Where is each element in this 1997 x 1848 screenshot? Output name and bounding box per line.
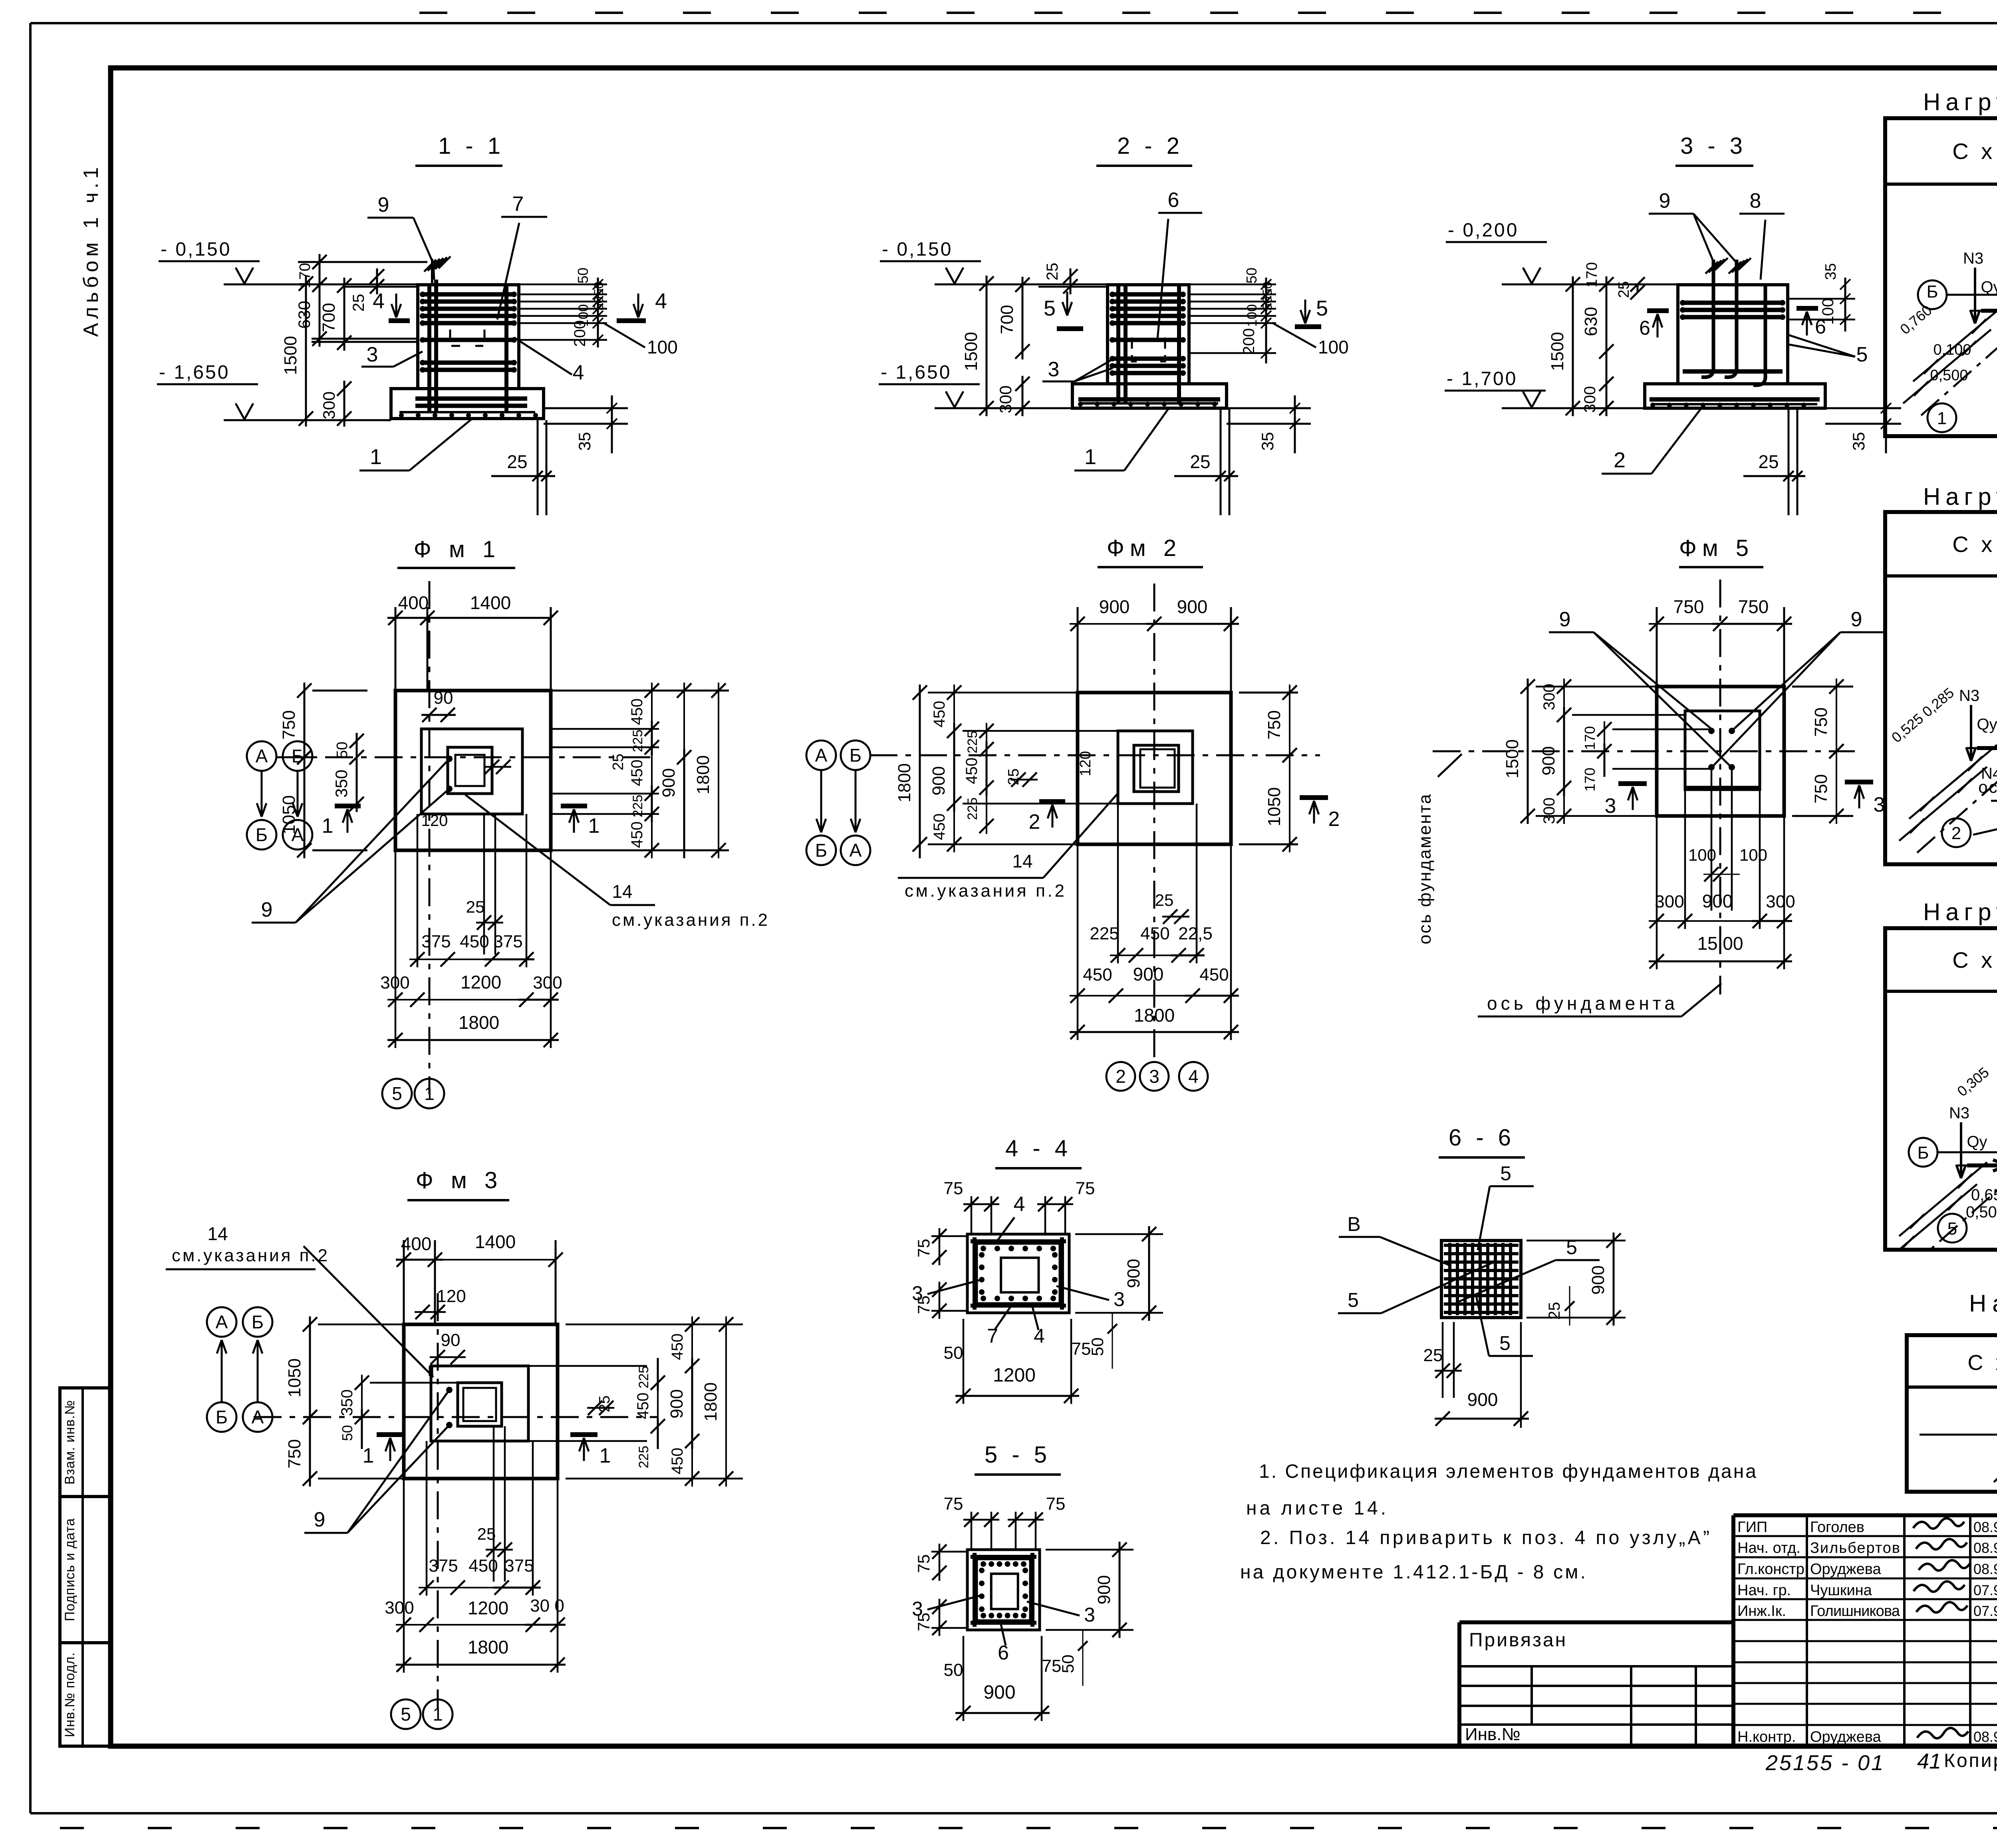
svg-text:200: 200: [1240, 328, 1258, 355]
svg-text:300: 300: [385, 1598, 414, 1618]
svg-text:Зильбертов: Зильбертов: [1810, 1540, 1900, 1556]
svg-text:2: 2: [1116, 1066, 1126, 1087]
svg-text:25: 25: [1616, 281, 1632, 298]
svg-text:1: 1: [588, 814, 600, 838]
svg-text:5: 5: [1566, 1236, 1577, 1258]
svg-text:200: 200: [571, 320, 589, 347]
svg-text:1: 1: [433, 1704, 443, 1725]
svg-text:Инв.№: Инв.№: [1465, 1725, 1521, 1744]
svg-text:120: 120: [437, 1286, 466, 1306]
svg-text:ось фундамента: ось фундамента: [1487, 993, 1675, 1014]
svg-text:Б: Б: [252, 1312, 264, 1332]
svg-text:100: 100: [1819, 298, 1837, 325]
svg-text:225: 225: [965, 731, 980, 754]
svg-text:450: 450: [931, 701, 948, 728]
svg-text:4: 4: [373, 289, 385, 313]
svg-text:Привязан: Привязан: [1469, 1630, 1567, 1651]
svg-text:375: 375: [421, 932, 451, 951]
svg-text:1800: 1800: [468, 1637, 508, 1657]
svg-text:- 0,150: - 0,150: [161, 239, 231, 260]
svg-text:120: 120: [421, 812, 448, 830]
svg-text:N3: N3: [1959, 687, 1979, 705]
svg-text:35: 35: [1849, 432, 1868, 451]
svg-text:50: 50: [1243, 268, 1260, 284]
svg-text:5: 5: [1500, 1162, 1511, 1185]
svg-text:300: 300: [320, 391, 338, 419]
svg-text:4: 4: [1188, 1066, 1199, 1087]
svg-text:4: 4: [1014, 1193, 1025, 1216]
svg-text:Фм 2: Фм 2: [1107, 535, 1182, 561]
svg-text:4: 4: [1034, 1325, 1045, 1347]
svg-text:225: 225: [965, 798, 980, 820]
svg-text:300: 300: [996, 385, 1015, 413]
svg-text:1500: 1500: [281, 336, 300, 375]
svg-text:14: 14: [1012, 851, 1032, 871]
svg-text:Б: Б: [292, 746, 304, 766]
svg-text:630: 630: [295, 301, 314, 329]
svg-text:А: А: [292, 824, 304, 845]
svg-text:75: 75: [944, 1494, 963, 1514]
svg-text:170: 170: [1584, 262, 1600, 287]
svg-text:300: 300: [533, 973, 562, 992]
svg-text:75: 75: [914, 1239, 933, 1258]
svg-text:Qу: Qу: [1967, 1133, 1987, 1151]
svg-text:- 0,150: - 0,150: [882, 239, 953, 260]
svg-text:Б: Б: [216, 1407, 228, 1427]
svg-text:Альбом 1 ч.1: Альбом 1 ч.1: [79, 163, 103, 337]
svg-text:С х е м а: С х е м а: [1952, 139, 1997, 164]
svg-text:50: 50: [1260, 282, 1274, 296]
svg-text:Б: Б: [850, 745, 862, 766]
svg-text:225: 225: [630, 730, 645, 752]
svg-text:Ф м 1: Ф м 1: [414, 536, 501, 562]
svg-text:225: 225: [636, 1446, 651, 1469]
svg-text:С х е м а: С х е м а: [1952, 532, 1997, 557]
svg-text:9: 9: [378, 193, 389, 216]
svg-text:2: 2: [1614, 448, 1626, 472]
svg-text:25: 25: [1546, 1302, 1563, 1320]
svg-text:50: 50: [592, 282, 606, 296]
svg-text:900: 900: [1099, 596, 1130, 617]
svg-text:Н.контр.: Н.контр.: [1737, 1729, 1796, 1745]
svg-text:41: 41: [1917, 1749, 1941, 1773]
svg-text:3: 3: [912, 1282, 923, 1304]
svg-text:6: 6: [1639, 317, 1650, 339]
svg-text:750: 750: [285, 1439, 304, 1468]
svg-text:225: 225: [636, 1366, 651, 1389]
svg-text:75: 75: [1046, 1494, 1066, 1514]
svg-text:750: 750: [1738, 596, 1769, 617]
svg-text:75: 75: [1072, 1339, 1091, 1359]
svg-text:3: 3: [1149, 1066, 1159, 1087]
svg-text:08.91: 08.91: [1973, 1729, 1997, 1745]
svg-text:07.91: 07.91: [1973, 1603, 1997, 1619]
svg-text:- 0,200: - 0,200: [1448, 220, 1519, 241]
svg-text:Нач. гр.: Нач. гр.: [1737, 1582, 1791, 1599]
svg-text:3: 3: [1874, 793, 1885, 816]
svg-text:08.91: 08.91: [1973, 1540, 1997, 1556]
svg-text:15 00: 15 00: [1697, 933, 1743, 954]
svg-text:25155 - 01: 25155 - 01: [1765, 1751, 1885, 1775]
svg-text:900: 900: [1133, 964, 1164, 985]
svg-text:5: 5: [1947, 1219, 1957, 1239]
svg-text:07.91: 07.91: [1973, 1582, 1997, 1598]
svg-text:22,5: 22,5: [1178, 924, 1213, 943]
svg-text:5: 5: [1856, 343, 1868, 366]
svg-text:450: 450: [468, 1556, 498, 1576]
svg-text:5: 5: [1316, 296, 1328, 320]
svg-text:1: 1: [363, 1444, 374, 1467]
svg-text:7: 7: [512, 193, 524, 216]
svg-text:300: 300: [1540, 798, 1558, 824]
svg-text:3: 3: [1605, 794, 1616, 818]
svg-text:5 - 5: 5 - 5: [985, 1442, 1051, 1468]
svg-text:25: 25: [1155, 891, 1174, 909]
svg-text:35: 35: [1258, 432, 1277, 451]
svg-text:5: 5: [1499, 1332, 1511, 1354]
svg-text:900: 900: [929, 766, 949, 795]
svg-text:14: 14: [612, 881, 632, 902]
svg-text:3: 3: [367, 343, 378, 366]
svg-text:900: 900: [1539, 746, 1558, 775]
svg-text:6: 6: [998, 1642, 1009, 1664]
svg-text:Взам. инв.№: Взам. инв.№: [62, 1400, 77, 1485]
svg-text:2: 2: [1951, 824, 1961, 843]
svg-text:на документе 1.412.1-БД - 8 см: на документе 1.412.1-БД - 8 см.: [1240, 1562, 1586, 1583]
svg-text:1: 1: [1937, 409, 1947, 428]
svg-text:50: 50: [1260, 296, 1274, 311]
svg-text:- 1,700: - 1,700: [1447, 368, 1517, 389]
svg-text:75: 75: [914, 1554, 933, 1573]
svg-text:25: 25: [1005, 768, 1022, 785]
svg-text:1 - 1: 1 - 1: [438, 133, 504, 159]
svg-text:3: 3: [912, 1598, 923, 1620]
svg-text:75: 75: [1076, 1179, 1095, 1198]
svg-text:3 - 3: 3 - 3: [1680, 133, 1747, 159]
svg-text:1800: 1800: [701, 1382, 721, 1421]
svg-text:Фм 5: Фм 5: [1679, 535, 1754, 561]
svg-text:6 - 6: 6 - 6: [1449, 1125, 1515, 1151]
svg-text:Инж.Iк.: Инж.Iк.: [1737, 1603, 1786, 1620]
svg-text:0,655: 0,655: [1971, 1186, 1997, 1204]
svg-text:08.91: 08.91: [1973, 1519, 1997, 1535]
svg-text:Нагрузки на фундамент Фм5: Нагрузки на фундамент Фм5: [1969, 1290, 1997, 1317]
svg-text:9: 9: [1559, 608, 1571, 631]
svg-text:Чушкина: Чушкина: [1810, 1582, 1872, 1599]
svg-text:ось фундамента: ось фундамента: [1978, 778, 1997, 796]
svg-text:900: 900: [1702, 891, 1733, 911]
svg-text:90: 90: [441, 1330, 461, 1350]
svg-text:9: 9: [1851, 608, 1862, 631]
svg-text:5: 5: [392, 1083, 402, 1104]
svg-text:4: 4: [655, 289, 667, 313]
svg-text:08.91: 08.91: [1973, 1561, 1997, 1577]
svg-text:75: 75: [944, 1179, 963, 1198]
svg-text:14: 14: [207, 1223, 228, 1244]
svg-text:225: 225: [1090, 924, 1119, 943]
svg-text:50: 50: [339, 1425, 355, 1441]
svg-text:450: 450: [669, 1448, 686, 1475]
svg-text:Нагрузки на фундамент Фм3: Нагрузки на фундамент Фм3: [1923, 899, 1997, 925]
svg-text:4: 4: [573, 361, 584, 384]
svg-text:1: 1: [599, 1444, 611, 1467]
svg-text:900: 900: [659, 768, 679, 797]
svg-text:5: 5: [1348, 1289, 1359, 1311]
svg-text:50: 50: [944, 1343, 963, 1363]
svg-text:Б: Б: [1927, 282, 1938, 302]
svg-text:375: 375: [493, 932, 522, 951]
svg-text:1200: 1200: [993, 1365, 1036, 1386]
svg-text:С х е м а: С х е м а: [1952, 947, 1997, 973]
svg-text:25: 25: [1758, 451, 1779, 472]
svg-text:1500: 1500: [1548, 332, 1567, 371]
svg-text:8: 8: [1750, 189, 1761, 212]
svg-text:100: 100: [647, 337, 678, 357]
svg-text:300: 300: [1766, 892, 1795, 911]
svg-text:4 - 4: 4 - 4: [1005, 1135, 1072, 1161]
svg-text:900: 900: [1588, 1265, 1608, 1294]
svg-text:350: 350: [338, 1389, 356, 1416]
svg-text:В: В: [1347, 1213, 1360, 1235]
svg-text:2 - 2: 2 - 2: [1117, 133, 1183, 159]
svg-text:900: 900: [983, 1682, 1015, 1703]
svg-text:0,500: 0,500: [1930, 367, 1968, 384]
svg-text:1800: 1800: [459, 1012, 499, 1033]
svg-text:А: А: [815, 745, 828, 766]
svg-text:0,100: 0,100: [1933, 341, 1971, 358]
svg-text:450: 450: [669, 1334, 686, 1360]
svg-text:9: 9: [1659, 189, 1671, 212]
svg-text:450: 450: [628, 822, 646, 848]
svg-text:1: 1: [1084, 445, 1096, 469]
svg-text:900: 900: [1467, 1389, 1498, 1410]
svg-text:25: 25: [507, 451, 527, 472]
svg-text:Нагрузки на фундамент Фм1: Нагрузки на фундамент Фм1: [1923, 89, 1997, 115]
svg-text:А: А: [252, 1407, 264, 1427]
svg-text:300: 300: [1655, 892, 1684, 911]
svg-text:25: 25: [1190, 451, 1210, 472]
svg-text:1400: 1400: [475, 1231, 516, 1252]
svg-text:25: 25: [610, 754, 627, 770]
svg-text:Нагрузки на фундамент Фм2: Нагрузки на фундамент Фм2: [1923, 483, 1997, 510]
svg-text:450: 450: [460, 932, 489, 951]
svg-text:Оруджева: Оруджева: [1810, 1561, 1881, 1578]
svg-text:35: 35: [575, 432, 594, 451]
svg-text:400: 400: [401, 1233, 432, 1254]
svg-text:900: 900: [1177, 596, 1208, 617]
svg-text:- 1,650: - 1,650: [159, 362, 230, 383]
svg-text:700: 700: [319, 303, 339, 332]
svg-text:А: А: [256, 746, 268, 766]
svg-text:170: 170: [297, 263, 314, 288]
svg-text:6: 6: [1168, 189, 1179, 212]
svg-text:Нач. отд.: Нач. отд.: [1737, 1540, 1800, 1556]
svg-text:170: 170: [1582, 726, 1598, 750]
svg-text:350: 350: [332, 770, 351, 798]
svg-text:25: 25: [466, 897, 485, 916]
svg-text:Ф м 3: Ф м 3: [416, 1167, 503, 1193]
svg-text:1200: 1200: [461, 972, 501, 992]
svg-text:Qу: Qу: [1977, 716, 1997, 733]
svg-text:900: 900: [667, 1389, 687, 1418]
svg-text:N3: N3: [1963, 250, 1983, 267]
svg-text:Б: Б: [815, 840, 827, 861]
svg-text:1800: 1800: [693, 755, 713, 794]
svg-text:100: 100: [1739, 846, 1767, 864]
svg-text:100: 100: [1318, 337, 1349, 357]
svg-text:750: 750: [1265, 710, 1284, 739]
svg-text:3: 3: [1084, 1604, 1095, 1626]
svg-text:1800: 1800: [1134, 1005, 1175, 1026]
svg-text:Оруджева: Оруджева: [1810, 1729, 1881, 1745]
svg-text:50: 50: [944, 1660, 963, 1680]
svg-text:2: 2: [1328, 808, 1340, 831]
svg-text:25: 25: [1044, 263, 1061, 281]
svg-text:ГИП: ГИП: [1737, 1519, 1767, 1536]
svg-text:1050: 1050: [285, 1358, 304, 1397]
svg-text:5: 5: [1044, 296, 1056, 320]
svg-text:170: 170: [1582, 768, 1598, 792]
svg-text:50: 50: [592, 296, 606, 311]
svg-text:Гл.констр.: Гл.констр.: [1737, 1561, 1808, 1578]
svg-text:400: 400: [398, 592, 429, 613]
svg-text:5: 5: [401, 1704, 411, 1725]
svg-text:30 0: 30 0: [530, 1596, 564, 1616]
svg-text:1: 1: [370, 445, 382, 469]
svg-text:- 1,650: - 1,650: [881, 362, 951, 383]
svg-text:1500: 1500: [961, 332, 981, 371]
svg-text:А: А: [850, 840, 862, 861]
svg-text:Подпись и дата: Подпись и дата: [62, 1518, 77, 1622]
svg-text:450: 450: [628, 760, 646, 786]
svg-text:Инв.№ подл.: Инв.№ подл.: [62, 1652, 77, 1737]
svg-text:Qу: Qу: [1981, 278, 1997, 296]
svg-text:Копировал Евстегнеева: Копировал Евстегнеева: [1944, 1750, 1997, 1771]
svg-text:0,500: 0,500: [1966, 1203, 1997, 1221]
svg-text:630: 630: [1581, 307, 1601, 336]
svg-text:9: 9: [314, 1508, 326, 1531]
svg-text:25: 25: [350, 294, 367, 312]
svg-text:375: 375: [504, 1556, 534, 1576]
svg-text:ось фундамента: ось фундамента: [1415, 793, 1435, 945]
svg-text:300: 300: [1540, 684, 1558, 711]
svg-text:1400: 1400: [470, 592, 511, 613]
svg-text:450: 450: [1199, 965, 1229, 985]
svg-text:1200: 1200: [468, 1598, 508, 1618]
svg-text:50: 50: [334, 742, 351, 758]
svg-text:1800: 1800: [895, 763, 914, 802]
svg-text:900: 900: [1094, 1575, 1114, 1604]
svg-text:120: 120: [1077, 751, 1094, 776]
svg-text:75: 75: [1042, 1656, 1062, 1676]
svg-text:35: 35: [1822, 263, 1839, 280]
svg-text:300: 300: [1581, 386, 1599, 413]
svg-text:450: 450: [963, 758, 981, 784]
svg-text:3: 3: [1048, 358, 1060, 381]
svg-text:Голишникова: Голишникова: [1810, 1603, 1900, 1620]
svg-text:Б: Б: [256, 824, 268, 845]
svg-text:3: 3: [1114, 1288, 1125, 1310]
svg-text:750: 750: [1811, 774, 1831, 803]
svg-text:450: 450: [634, 1393, 652, 1419]
svg-text:1500: 1500: [1503, 739, 1522, 778]
svg-text:450: 450: [1140, 924, 1169, 943]
svg-text:225: 225: [630, 795, 645, 818]
svg-text:2: 2: [1029, 810, 1040, 834]
svg-text:1050: 1050: [1265, 787, 1284, 826]
svg-text:100: 100: [1245, 304, 1260, 327]
svg-text:9: 9: [261, 898, 273, 921]
svg-text:750: 750: [279, 710, 299, 739]
svg-text:Б: Б: [1918, 1143, 1929, 1163]
svg-text:1: 1: [322, 814, 333, 838]
svg-text:50: 50: [575, 268, 591, 284]
svg-text:750: 750: [1673, 596, 1704, 617]
svg-text:450: 450: [1083, 965, 1112, 985]
svg-text:375: 375: [429, 1556, 458, 1576]
svg-text:N3: N3: [1949, 1104, 1969, 1122]
svg-text:90: 90: [434, 688, 453, 708]
svg-text:1: 1: [424, 1083, 435, 1104]
svg-text:750: 750: [1811, 707, 1831, 736]
svg-text:25: 25: [1423, 1346, 1443, 1365]
svg-text:450: 450: [931, 814, 948, 840]
svg-text:Гоголев: Гоголев: [1810, 1519, 1864, 1536]
svg-text:А: А: [216, 1312, 228, 1332]
svg-text:450: 450: [628, 699, 646, 725]
svg-text:С х е м а: С х е м а: [1967, 1351, 1997, 1375]
svg-text:700: 700: [997, 305, 1017, 334]
svg-text:900: 900: [1124, 1259, 1143, 1288]
